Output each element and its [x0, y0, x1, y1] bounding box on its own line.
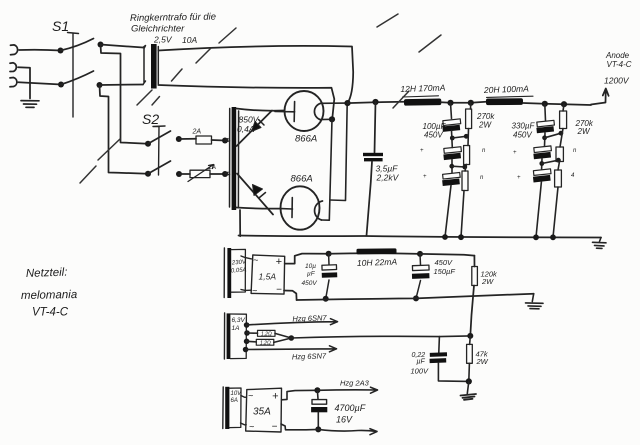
- tube V2 cathode: [291, 198, 293, 218]
- wire R3 to bias node: [470, 286, 474, 336]
- node gnd r1: [458, 234, 464, 240]
- svg-text:4700µF: 4700µF: [335, 403, 366, 413]
- svg-text:12H 170mA: 12H 170mA: [400, 82, 446, 94]
- wire R2c to ground bus: [553, 187, 558, 237]
- wire feed to T1 primary bottom: [100, 84, 144, 87]
- transformer T3 secondary box: [231, 249, 245, 292]
- node S2 out 1: [176, 136, 182, 142]
- wire T3 top to bridge: [241, 256, 252, 259]
- svg-text:Ringkerntrafo für die: Ringkerntrafo für die: [130, 11, 216, 24]
- capacitor C1a 100uF: [443, 119, 461, 126]
- wire C1c to ground bus: [445, 185, 451, 237]
- svg-text:~: ~: [253, 255, 258, 265]
- svg-text:2W: 2W: [476, 357, 489, 366]
- svg-text:+: +: [420, 148, 424, 154]
- svg-text:−: −: [276, 285, 282, 296]
- wire R1c to ground bus: [461, 191, 464, 238]
- node C3 bottom: [323, 296, 329, 302]
- svg-text:0,05A: 0,05A: [231, 267, 247, 274]
- node T4 term4: [243, 347, 249, 353]
- svg-text:n: n: [480, 175, 484, 181]
- wire C0 to ground bus: [367, 162, 373, 236]
- node resistor chain 2 top: [561, 101, 567, 107]
- capacitor C6 4700uF: [316, 390, 319, 399]
- wire rail under choke L3: [329, 252, 420, 255]
- wire B2 minus rail plus arrow: [281, 424, 377, 435]
- wire rail to 120k corner: [420, 254, 474, 256]
- svg-text:melomania: melomania: [21, 289, 77, 302]
- svg-text:10V: 10V: [231, 391, 243, 397]
- transformer T5 core: [225, 387, 229, 429]
- transformer T1 primary winding: [143, 46, 146, 85]
- wire to ground: [467, 381, 469, 393]
- transformer T2 secondary winding: [237, 111, 239, 207]
- ground (mains): [21, 101, 39, 108]
- svg-text:Netzteil:: Netzteil:: [26, 267, 68, 280]
- diode D1: [237, 111, 272, 147]
- svg-text:866A: 866A: [291, 174, 313, 185]
- svg-text:Hzg 6SN7: Hzg 6SN7: [292, 313, 327, 323]
- wire R1a-R1b: [467, 129, 470, 146]
- svg-text:2,2kV: 2,2kV: [376, 173, 400, 183]
- diode D2: [237, 174, 273, 215]
- svg-text:16V: 16V: [336, 415, 353, 425]
- wire r4b to junction: [274, 338, 292, 342]
- capacitor C0 3.5uF 2.2kV: [363, 153, 383, 156]
- svg-text:10A: 10A: [182, 35, 197, 45]
- capacitor C1b: [444, 147, 462, 154]
- svg-text:2,5V: 2,5V: [153, 35, 173, 45]
- wire bias line: [291, 336, 470, 338]
- node gnd c2: [533, 234, 539, 240]
- svg-text:10µ: 10µ: [305, 263, 316, 270]
- wire feed to T1 primary top: [101, 45, 144, 48]
- svg-text:35A: 35A: [253, 407, 271, 418]
- wire T2 top to V1 anode: [236, 109, 284, 111]
- wire V1 filament to bus: [321, 102, 348, 104]
- wire to C0: [375, 102, 376, 153]
- resistor R1a 270k: [470, 103, 472, 109]
- mains plug pin 3: [10, 78, 17, 87]
- svg-text:1,2Ω: 1,2Ω: [260, 340, 271, 346]
- choke L1: [403, 96, 439, 97]
- fuse F1 2A: [196, 136, 212, 144]
- wire S2 out2 to rheostat: [179, 173, 190, 175]
- svg-text:100V: 100V: [411, 367, 430, 376]
- svg-text:Gleichrichter: Gleichrichter: [131, 24, 185, 35]
- svg-text:2W: 2W: [481, 277, 494, 286]
- svg-text:Hzg 2A3: Hzg 2A3: [340, 379, 370, 388]
- switch S2 blade 2: [148, 161, 171, 174]
- wire B1 plus to rail: [285, 254, 329, 264]
- node T4 term2: [244, 330, 250, 336]
- tube V2 anode lead: [281, 208, 293, 210]
- mains plug pin 2: [10, 63, 16, 72]
- node T2 primary bottom: [222, 171, 228, 177]
- ground (HV bus): [593, 238, 607, 249]
- node cap stack 1 top: [447, 100, 453, 106]
- wire to resistor r4b: [247, 340, 257, 343]
- wire link to R2a: [545, 133, 561, 138]
- wire cap stack 2 drop: [544, 104, 547, 121]
- wire to resistor r4a: [247, 332, 258, 334]
- wire B1 minus to 0V rail: [284, 291, 297, 301]
- dash mark d6: [196, 48, 211, 63]
- tube V2 filament loop: [315, 201, 323, 220]
- dash mark d1: [80, 166, 96, 183]
- wire heater line 1 with arrow: [247, 319, 338, 325]
- svg-text:+: +: [513, 150, 517, 156]
- svg-text:450V: 450V: [435, 258, 454, 267]
- switch S2 link bar: [153, 126, 165, 175]
- wire 0V rail: [297, 294, 534, 300]
- transformer T1 core: [151, 44, 157, 89]
- svg-text:150µF: 150µF: [434, 267, 456, 276]
- wire 2.5V line A: [158, 46, 353, 103]
- node feed bottom: [97, 82, 103, 88]
- resistor R3 120k drop: [473, 256, 475, 267]
- transformer T4 primary winding: [223, 313, 225, 359]
- svg-text:VT-4-C: VT-4-C: [607, 60, 632, 69]
- bridge rectifier B2 35A: [246, 388, 282, 432]
- tube V1 cathode: [293, 102, 295, 122]
- transformer T3 core: [227, 248, 231, 298]
- node T4 term3: [244, 339, 250, 345]
- wire rheostat to T2 primary bottom: [210, 173, 225, 175]
- node link1a: [450, 136, 455, 141]
- transformer T3 primary winding: [223, 248, 225, 298]
- svg-text:1200V: 1200V: [604, 76, 630, 86]
- svg-text:450V: 450V: [302, 280, 318, 287]
- svg-text:Hzg 6SN7: Hzg 6SN7: [292, 351, 327, 361]
- svg-text:4: 4: [571, 173, 575, 179]
- dash mark d9: [419, 35, 441, 52]
- wire pin1 to S1: [19, 49, 61, 52]
- ground (bias): [461, 394, 477, 400]
- svg-text:6,3V: 6,3V: [232, 317, 246, 324]
- node R5 bottom: [466, 378, 472, 384]
- mains plug pin 1: [11, 45, 18, 55]
- node gnd r2: [550, 234, 556, 240]
- tube V1 anode lead: [275, 111, 295, 113]
- svg-text:10H 22mA: 10H 22mA: [357, 257, 398, 268]
- node C4 bottom: [413, 295, 419, 301]
- node resistor chain 1 top: [468, 100, 474, 106]
- svg-text:S1: S1: [52, 18, 69, 34]
- capacitor C3 10uF: [328, 254, 330, 265]
- wire link to R1a: [452, 136, 466, 138]
- svg-text:VT-4-C: VT-4-C: [32, 307, 69, 319]
- svg-text:2W: 2W: [577, 127, 591, 136]
- output arrow 1200V anode: [591, 89, 609, 105]
- dash mark d5: [172, 69, 183, 81]
- wire V2 filament riser to bus: [330, 103, 347, 201]
- dash mark d2: [98, 139, 120, 160]
- node S2 pole 1: [145, 141, 151, 147]
- switch S1 blade 1: [61, 39, 94, 51]
- svg-text:n: n: [573, 148, 577, 154]
- node B+ junction 1: [344, 100, 350, 106]
- svg-text:Anode: Anode: [605, 51, 630, 60]
- resistor R1c 270k: [462, 171, 468, 191]
- wire C5 bottom: [438, 363, 468, 382]
- wire C2c to ground bus: [536, 182, 541, 238]
- svg-text:+: +: [517, 175, 521, 181]
- node C6 top: [314, 387, 320, 393]
- node V1 filament bottom: [320, 118, 332, 120]
- node bias junction right: [467, 333, 473, 339]
- svg-text:µF: µF: [417, 359, 426, 366]
- svg-text:+: +: [272, 391, 279, 403]
- resistor r4a: [258, 330, 276, 336]
- wire fuse to T2 primary top: [212, 139, 226, 142]
- capacitor C2c: [533, 169, 551, 176]
- dash mark d10: [393, 91, 409, 108]
- svg-text:~: ~: [248, 391, 253, 401]
- dash mark d7: [219, 28, 236, 43]
- wire top bus drop: [101, 45, 149, 144]
- wire R2b-R2c: [558, 162, 560, 171]
- switch S2 blade 1: [148, 131, 171, 144]
- switch S1 blade 2: [61, 71, 94, 85]
- resistor r4b: [256, 339, 274, 345]
- svg-text:µF: µF: [307, 271, 316, 278]
- resistor R1b 270k: [464, 146, 470, 165]
- svg-text:−: −: [272, 422, 278, 433]
- wire pin2 to ground: [18, 67, 30, 98]
- resistor R2a 270k: [563, 104, 564, 111]
- transformer T1 secondary winding: [157, 47, 159, 85]
- node cap stack 2 top: [542, 101, 548, 107]
- wire C1b-C1c: [451, 160, 453, 173]
- svg-text:230V: 230V: [231, 259, 247, 266]
- wire bottom bus drop: [100, 85, 149, 174]
- bridge rectifier B1 1.5A: [251, 255, 285, 294]
- wire 2.5V line B: [158, 85, 334, 119]
- svg-text:6A: 6A: [231, 398, 238, 404]
- capacitor C2a 330uF: [537, 120, 555, 127]
- svg-text:2W: 2W: [478, 121, 492, 130]
- svg-text:S2: S2: [142, 111, 159, 127]
- svg-text:2A: 2A: [192, 129, 202, 136]
- capacitor C1c: [443, 173, 461, 180]
- wire B+ bus segment 1: [348, 102, 405, 103]
- node T2 primary top: [222, 138, 228, 144]
- svg-text:450V: 450V: [513, 131, 532, 140]
- wire B+ bus segment 2: [441, 102, 486, 103]
- dash mark d4: [152, 97, 160, 106]
- node S2 out 2: [176, 171, 182, 177]
- node C6 bottom: [315, 426, 321, 432]
- svg-text:n: n: [482, 148, 486, 154]
- node C4 top: [417, 251, 423, 257]
- node S2 pole 2: [145, 171, 151, 177]
- tube V2 envelope: [281, 186, 320, 229]
- rheostat: [190, 170, 210, 177]
- svg-text:866A: 866A: [295, 134, 317, 145]
- capacitor C5 0.22uF drop: [438, 337, 441, 353]
- svg-text:0,4A: 0,4A: [237, 124, 255, 134]
- svg-text:850V: 850V: [239, 115, 260, 125]
- capacitor C4 150uF: [419, 254, 422, 265]
- transformer T2 core: [232, 107, 237, 210]
- wire link to R1b: [452, 165, 465, 168]
- svg-text:1,5A: 1,5A: [259, 272, 277, 282]
- wire T2 to ground bus: [239, 210, 241, 236]
- wire B+ bus segment 3: [523, 103, 591, 105]
- transformer T2 primary winding: [229, 109, 231, 208]
- wire B2 plus to rail: [282, 390, 318, 400]
- transformer T5 secondary box: [230, 388, 241, 428]
- node S1 pole 2: [58, 82, 64, 88]
- node link2a: [542, 135, 547, 140]
- svg-text:~: ~: [249, 422, 254, 432]
- wire T5 bottom to bridge: [241, 423, 247, 425]
- node link1b: [449, 164, 454, 169]
- wire C1a-C1b: [451, 131, 454, 148]
- ground (row1 rail): [526, 294, 544, 309]
- tube V1 envelope: [285, 91, 324, 131]
- svg-text:20H 100mA: 20H 100mA: [483, 83, 530, 95]
- svg-text:450V: 450V: [424, 131, 443, 140]
- wire T2 bottom to V2 anode: [236, 208, 281, 209]
- wire C2b-C2c: [541, 159, 543, 169]
- svg-text:1A: 1A: [232, 325, 240, 332]
- wire T5 top to bridge: [241, 396, 247, 398]
- switch S1 link bar: [68, 33, 79, 118]
- node C3 top: [326, 251, 332, 257]
- dash mark d3: [137, 90, 152, 105]
- resistor R2b 270k: [556, 147, 563, 162]
- wire link to R2b: [542, 160, 559, 163]
- wire R2a-R2b: [560, 129, 563, 148]
- wire S2 out1 to fuse: [179, 138, 196, 140]
- capacitor C2b: [534, 146, 552, 153]
- node S1 pole 1: [58, 48, 64, 54]
- wire T3 bottom to bridge: [241, 289, 251, 292]
- node 3.5uF tap: [372, 99, 378, 105]
- node feed top: [98, 42, 104, 48]
- wire cap stack 1 drop: [451, 103, 452, 119]
- svg-text:1A: 1A: [208, 164, 216, 171]
- tube V1 filament loop: [314, 103, 320, 119]
- wire r4a to junction: [275, 333, 291, 338]
- wire HV ground bus: [239, 236, 602, 238]
- node gnd c1: [442, 234, 448, 240]
- node bias junction left: [289, 335, 295, 341]
- choke L2: [487, 96, 534, 97]
- svg-text:+: +: [423, 174, 427, 180]
- wire C2a-C2b: [544, 133, 547, 146]
- resistor R2c 270k: [555, 170, 562, 187]
- dash mark d8: [377, 14, 398, 27]
- wire V1 to V2 filament: [322, 119, 333, 220]
- wire pin3 to S1 pole 2: [18, 82, 61, 84]
- svg-text:330µF: 330µF: [512, 122, 536, 131]
- transformer T4 secondary box: [231, 314, 247, 359]
- transformer T4 core: [227, 313, 231, 359]
- wire rail 2A3 heater plus arrow: [317, 387, 377, 393]
- node T4 term1: [244, 322, 250, 328]
- wire heater line 2 with arrow: [246, 346, 337, 352]
- node link2b: [539, 161, 544, 166]
- wire R1b-R1c: [465, 165, 467, 172]
- transformer T5 primary winding: [222, 387, 224, 429]
- choke L3 10H: [356, 248, 396, 254]
- svg-text:+: +: [276, 256, 283, 268]
- svg-text:1,2Ω: 1,2Ω: [261, 331, 272, 337]
- svg-text:~: ~: [252, 286, 257, 296]
- resistor R5 47k: [469, 336, 472, 345]
